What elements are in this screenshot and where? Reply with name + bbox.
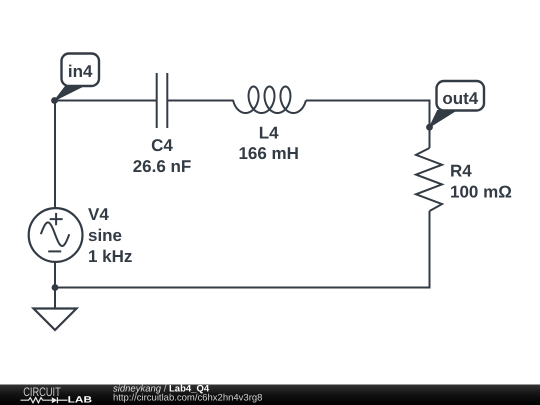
wire: bottom ground rail bbox=[55, 287, 431, 289]
svg-text:CIRCUIT: CIRCUIT bbox=[23, 385, 61, 399]
inductor L4 bbox=[233, 87, 306, 114]
wire: V4 bottom terminal to ground node bbox=[54, 262, 56, 288]
footer bar bbox=[0, 385, 540, 405]
resistor R4 bbox=[416, 148, 442, 211]
svg-text:out4: out4 bbox=[442, 89, 478, 108]
wire: top-right corner down to resistor R4 bbox=[429, 100, 431, 149]
wire: in4 node down to V4 top terminal bbox=[54, 101, 56, 209]
node label callout out4 bbox=[430, 81, 485, 127]
node label callout in4 bbox=[55, 54, 100, 101]
svg-text:L4: L4 bbox=[259, 124, 279, 143]
voltage source V4 bbox=[29, 208, 83, 262]
wire: L4 to top-right corner bbox=[306, 100, 430, 102]
svg-text:R4: R4 bbox=[450, 162, 472, 181]
wire: R4 bottom to ground rail corner bbox=[429, 211, 431, 288]
node: ground junction dot bbox=[52, 284, 59, 291]
node: in4 junction dot bbox=[51, 97, 58, 104]
svg-text:http://circuitlab.com/c6hx2hn4: http://circuitlab.com/c6hx2hn4v3rg8 bbox=[113, 393, 262, 404]
svg-text:V4: V4 bbox=[88, 205, 109, 224]
wire: ground node to ground symbol bbox=[54, 288, 56, 309]
wire top: in4 node to C4 left plate bbox=[55, 100, 157, 102]
node: out4 junction dot bbox=[426, 124, 433, 131]
svg-text:C4: C4 bbox=[151, 136, 173, 155]
svg-text:166 mH: 166 mH bbox=[238, 144, 298, 163]
svg-text:LAB: LAB bbox=[68, 395, 93, 405]
svg-text:1 kHz: 1 kHz bbox=[88, 247, 132, 266]
svg-text:in4: in4 bbox=[68, 62, 93, 81]
ground bbox=[34, 309, 77, 331]
footer logo circuit glyph (resistor + diode) bbox=[21, 397, 68, 403]
svg-text:26.6 nF: 26.6 nF bbox=[133, 157, 192, 176]
capacitor C4 bbox=[157, 73, 168, 128]
svg-text:sine: sine bbox=[88, 226, 122, 245]
svg-text:100 mΩ: 100 mΩ bbox=[450, 183, 512, 202]
wire: C4 right plate to L4 bbox=[167, 100, 233, 102]
